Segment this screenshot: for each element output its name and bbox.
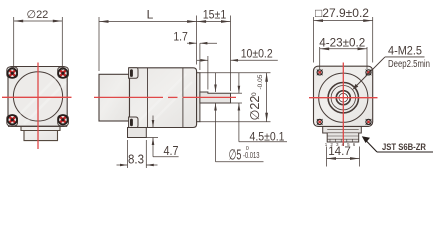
- motor can circle (front): [319, 73, 368, 122]
- boss ring inner: [331, 86, 355, 110]
- svg-text:1.7: 1.7: [173, 30, 188, 44]
- mounting hole BR: [366, 119, 372, 125]
- motor body (left view square): [8, 67, 67, 127]
- svg-text:4-23±0.2: 4-23±0.2: [319, 35, 365, 49]
- screw rear BR: [58, 115, 67, 124]
- svg-text:10±0.2: 10±0.2: [241, 47, 273, 61]
- mounting hole BL: [317, 119, 323, 125]
- boss hook bottom: [129, 117, 138, 128]
- screw rear TL: [8, 69, 17, 78]
- svg-text:∅22: ∅22: [26, 9, 48, 21]
- svg-text:L: L: [147, 8, 154, 22]
- centerline vertical (right view): [342, 63, 344, 147]
- shaft ring thick: [336, 91, 350, 105]
- svg-text:-0.013: -0.013: [243, 151, 260, 160]
- corner boss bottom-right: [58, 115, 69, 126]
- svg-text:0: 0: [251, 92, 258, 96]
- label 4-M2.5 Deep2.5min with leader: [354, 57, 424, 88]
- dim ⌀22 (left view): [14, 17, 63, 70]
- dim □27.9±0.2: [314, 17, 373, 63]
- internal joint line 2: [182, 68, 184, 128]
- centerline (side view, dashed): [94, 96, 236, 98]
- shaft inner circle: [339, 93, 348, 102]
- main body (side): [130, 68, 197, 128]
- svg-text:15±1: 15±1: [203, 8, 227, 22]
- dim 10±0.2: [197, 56, 278, 90]
- svg-text:4.5±0.1: 4.5±0.1: [250, 129, 285, 143]
- svg-text:□27.9±0.2: □27.9±0.2: [315, 6, 369, 20]
- rear end bell block: [99, 74, 130, 121]
- centerline vertical (left view): [37, 63, 39, 150]
- dim 4-23±0.2: [320, 47, 367, 69]
- dim ⌀22 0/-0.05 (pilot): [200, 73, 271, 122]
- svg-text:JST S6B-ZR: JST S6B-ZR: [382, 142, 426, 153]
- mounting hole TL: [317, 70, 323, 76]
- pin numbers: [325, 142, 356, 147]
- shaft (side): [200, 92, 231, 103]
- corner boss top-left: [7, 67, 18, 78]
- boss hook top inner detail: [130, 69, 133, 77]
- svg-text:4.7: 4.7: [164, 143, 179, 158]
- svg-text:∅22: ∅22: [248, 96, 262, 121]
- label JST S6B-ZR with leader: [365, 139, 434, 152]
- svg-text:8.3: 8.3: [128, 151, 144, 166]
- body (front view square): [314, 66, 373, 126]
- svg-text:4-M2.5: 4-M2.5: [388, 44, 422, 58]
- boss ring outer: [328, 83, 358, 113]
- dim 8.3 (connector width): [117, 140, 158, 168]
- boss hook bottom inner detail: [130, 119, 133, 127]
- screw rear TR: [58, 69, 67, 78]
- pilot boss (side): [197, 73, 200, 122]
- connector housing (right view, below body): [323, 126, 362, 142]
- connector housing (left view, below body): [21, 121, 60, 141]
- corner boss top-right: [58, 67, 69, 78]
- connector ledge line: [24, 130, 58, 132]
- sheen middle view: [138, 74, 192, 124]
- svg-text:14.7: 14.7: [328, 144, 351, 158]
- sheen left view: [14, 72, 66, 124]
- dim L: [99, 16, 197, 72]
- svg-text:∅5: ∅5: [229, 148, 242, 164]
- svg-text:Deep2.5min: Deep2.5min: [388, 59, 430, 70]
- internal joint line 1: [147, 68, 149, 128]
- screw rear BL: [8, 115, 17, 124]
- dim 1.7: [187, 43, 217, 70]
- boss hook top: [129, 68, 138, 79]
- svg-text:-0.05: -0.05: [257, 74, 264, 89]
- connector (side view, below): [128, 128, 147, 138]
- dim ⌀5 0/-0.013 (shaft): [216, 73, 264, 162]
- mounting hole TR: [366, 70, 372, 76]
- centerline horizontal (left view): [2, 96, 72, 98]
- dim 4.7 (connector height): [146, 116, 178, 157]
- connector slots: [327, 130, 359, 142]
- centerline horizontal (right view): [309, 97, 378, 99]
- dim 4.5±0.1 (flat): [231, 73, 288, 142]
- dim 15±1: [197, 16, 231, 92]
- body bottom edge over housing: [8, 125, 67, 127]
- dim 14.7: [327, 147, 360, 167]
- corner boss bottom-left: [7, 115, 18, 126]
- motor can circle: [13, 72, 62, 121]
